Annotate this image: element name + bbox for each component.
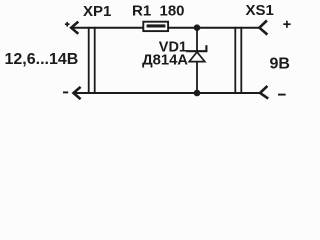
svg-text:XP1: XP1 xyxy=(83,3,111,20)
minus sign bottom right xyxy=(278,94,286,96)
connector XS1 socket - (fork, bottom right) xyxy=(260,86,268,99)
resistor R1 body xyxy=(143,22,168,31)
wire top rail left segment xyxy=(72,27,144,29)
connector XP1 pin + (arrow, top left) xyxy=(71,22,78,34)
minus sign bottom left xyxy=(63,91,68,93)
svg-text:Д814А: Д814А xyxy=(142,52,188,68)
node junction top xyxy=(194,24,201,31)
wire zener bottom lead xyxy=(196,62,198,93)
wire bottom rail xyxy=(74,92,261,94)
wire zener top lead xyxy=(196,28,198,52)
connector XS1 body line 1 xyxy=(234,27,236,94)
zener VD1 cathode tick xyxy=(205,45,207,51)
wire top rail right segment xyxy=(169,27,260,29)
svg-text:9В: 9В xyxy=(270,56,290,73)
node junction bottom xyxy=(194,90,201,97)
connector XS1 socket + (fork, top right) xyxy=(259,21,267,35)
zener VD1 cathode bar xyxy=(186,50,207,52)
connector XP1 body line 2 xyxy=(94,27,96,94)
svg-text:180: 180 xyxy=(160,3,185,20)
connector XP1 body line 1 xyxy=(88,27,90,94)
svg-text:R1: R1 xyxy=(132,3,151,20)
svg-text:XS1: XS1 xyxy=(246,2,274,19)
zener VD1 anode triangle xyxy=(189,52,205,62)
plus sign top right xyxy=(283,21,290,28)
connector XP1 pin - (arrow, bottom left) xyxy=(74,87,81,99)
resistor R1 inner bar xyxy=(147,24,166,27)
plus sign top left xyxy=(65,22,70,27)
svg-text:12,6...14В: 12,6...14В xyxy=(5,51,79,68)
connector XS1 body line 2 xyxy=(240,27,242,94)
